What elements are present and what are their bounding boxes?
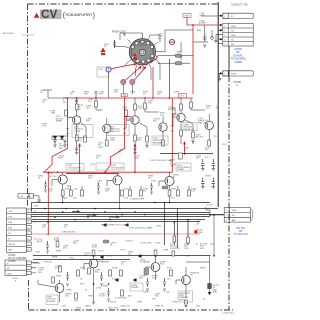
svg-text:47UH: 47UH [54,240,60,242]
svg-text:R7RA: R7RA [52,256,58,259]
svg-text:GND: GND [213,292,218,294]
svg-text:R7764: R7764 [112,268,119,270]
svg-text:R7RC: R7RC [103,286,109,288]
svg-text:Y IN: Y IN [8,211,12,213]
svg-text:R7R9: R7R9 [185,256,191,258]
svg-text:1.2K: 1.2K [48,191,53,193]
svg-text:47 UF7: 47 UF7 [99,296,106,298]
svg-text:A7GRP: A7GRP [199,22,206,25]
svg-text:MUTE: MUTE [179,299,185,301]
svg-text:C73A H2O UHF: C73A H2O UHF [130,198,145,201]
svg-text:47R: 47R [42,227,46,229]
svg-text:PC7A: PC7A [140,42,146,45]
svg-text:R7S2 1K: R7S2 1K [44,262,53,264]
svg-text:PC9A818D: PC9A818D [140,261,151,264]
svg-text:TO 254 COIL: TO 254 COIL [234,233,249,236]
svg-text:OR 7J6: OR 7J6 [49,176,57,178]
svg-text:FEEDBACK: FEEDBACK [153,141,164,144]
svg-text:GND: GND [196,306,201,308]
svg-text:A7GR: A7GR [37,240,43,243]
svg-text:R7S6: R7S6 [76,308,82,310]
svg-text:R7RE: R7RE [200,268,206,270]
svg-text:SPEED UP: SPEED UP [110,131,121,133]
svg-text:JH703: JH703 [205,176,212,178]
svg-text:B AMP: B AMP [56,120,63,123]
svg-text:70UH: 70UH [200,15,206,17]
svg-text:C7S3: C7S3 [96,288,102,290]
svg-text:C9C913D-MT1: C9C913D-MT1 [111,168,125,170]
svg-text:C AMP: C AMP [74,130,81,133]
svg-text:G IN: G IN [8,217,13,219]
svg-text:C7R6: C7R6 [130,92,136,94]
svg-text:SS#B: SS#B [231,74,237,76]
svg-text:CZ 782: CZ 782 [206,205,213,207]
svg-text:CLAMP: CLAMP [177,168,185,171]
svg-text:90R: 90R [59,148,63,150]
svg-text:C7R5: C7R5 [156,226,162,228]
svg-text:R7R9: R7R9 [174,92,180,94]
svg-text:R45 (K): R45 (K) [168,109,175,111]
svg-text:C7R4: C7R4 [151,181,157,183]
svg-text:R7S4: R7S4 [56,276,62,278]
svg-text:R7R6: R7R6 [56,251,62,253]
svg-text:C7R8: C7R8 [163,250,169,252]
svg-text:100R: 100R [98,147,103,149]
svg-text:180V: 180V [231,26,236,28]
svg-text:C7RB: C7RB [66,290,72,292]
svg-text:1.2K: 1.2K [124,198,129,200]
svg-text:C9C913D-MT1: C9C913D-MT1 [68,168,82,170]
svg-text:47R: 47R [80,284,84,286]
svg-text:AKB: AKB [197,29,202,32]
svg-text:BUFFER: BUFFER [47,301,56,303]
svg-text:C7RD: C7RD [143,292,149,294]
svg-text:(4.5V): (4.5V) [98,251,104,253]
svg-text:GND: GND [232,210,237,212]
svg-text:100R: 100R [110,140,115,142]
svg-text:): ) [93,10,95,19]
svg-text:1.2K: 1.2K [123,109,128,111]
svg-text:GND: GND [7,273,12,275]
svg-text:CV: CV [41,7,58,21]
svg-text:AT FOCUS: AT FOCUS [3,32,14,35]
svg-text:GND IN: GND IN [8,244,16,246]
svg-text:GND: GND [8,250,13,252]
svg-text:C7754.2: C7754.2 [125,241,133,243]
svg-text:J-2105-152-0: J-2105-152-0 [222,313,235,315]
svg-text:C7776.1 S60: C7776.1 S60 [140,243,153,245]
svg-text:CN70B: CN70B [233,81,241,84]
svg-text:C73R: C73R [33,206,39,208]
svg-text:SPEED UP: SPEED UP [184,129,195,131]
svg-text:2.2K: 2.2K [138,108,143,110]
svg-text:GND: GND [231,35,236,37]
svg-text:C777R 10UF: C777R 10UF [115,298,127,300]
svg-text:C7R5: C7R5 [172,302,178,304]
svg-text:STOPPER: STOPPER [170,248,180,250]
svg-text:D752 C9D1914-D CLAMP: D752 C9D1914-D CLAMP [150,159,174,162]
svg-text:D770 C9D914-D1 CLAMP: D770 C9D914-D1 CLAMP [129,227,153,230]
svg-text:C7RG 47R: C7RG 47R [120,306,130,308]
svg-text:C705: C705 [184,16,190,18]
svg-text:R7R2: R7R2 [88,296,94,298]
svg-text:PC9A8184D: PC9A8184D [98,261,110,264]
svg-text:47UH: 47UH [92,247,98,249]
svg-text:CN702 CT 7J6: CN702 CT 7J6 [231,4,248,7]
svg-text:C7R3 1R: C7R3 1R [108,302,117,304]
svg-text:B IN: B IN [8,228,12,230]
svg-text:47N: 47N [114,92,118,94]
svg-text:D7R0 (K)D914: D7R0 (K)D914 [62,232,76,234]
svg-text:4.7K: 4.7K [112,279,117,281]
svg-text:4.7K: 4.7K [42,126,47,128]
svg-text:1.2K: 1.2K [191,191,196,193]
svg-text:R7RH: R7RH [85,306,91,308]
svg-text:AT CELL: AT CELL [196,136,205,139]
svg-text:47UH: 47UH [55,268,61,270]
svg-text:PER CELL: PER CELL [198,122,209,124]
svg-text:CN704: CN704 [47,173,54,175]
svg-text:CN701: CN701 [12,278,19,280]
svg-text:R IN: R IN [8,222,13,224]
svg-text:4.5V: 4.5V [210,244,215,246]
svg-text:RGB AMPLIFIER: RGB AMPLIFIER [65,12,92,17]
svg-text:BEAD: BEAD [177,51,183,54]
svg-text:RT92 SCREEN OUT1 CLAMP: RT92 SCREEN OUT1 CLAMP [101,223,129,226]
svg-text:C9B18D: C9B18D [131,287,139,289]
svg-text:2.06M: 2.06M [170,164,176,166]
svg-text:C7S1: C7S1 [35,252,41,254]
svg-text:R7R2: R7R2 [80,268,86,270]
svg-text:R7R4: R7R4 [137,302,143,304]
svg-text:47R: 47R [99,94,103,96]
svg-text:C7R1: C7R1 [155,243,161,245]
svg-text:GND C7S5: GND C7S5 [108,308,119,310]
svg-text:4.7K: 4.7K [152,278,157,280]
svg-text:R7RF 1K: R7RF 1K [155,306,164,308]
svg-text:47R: 47R [74,301,78,303]
svg-text:A-90122-B: A-90122-B [138,44,147,47]
svg-text:R4R: R4R [199,232,204,234]
svg-text:CN706: CN706 [8,260,16,263]
svg-text:CN699: CN699 [234,61,242,64]
svg-text:10R: 10R [62,306,66,308]
